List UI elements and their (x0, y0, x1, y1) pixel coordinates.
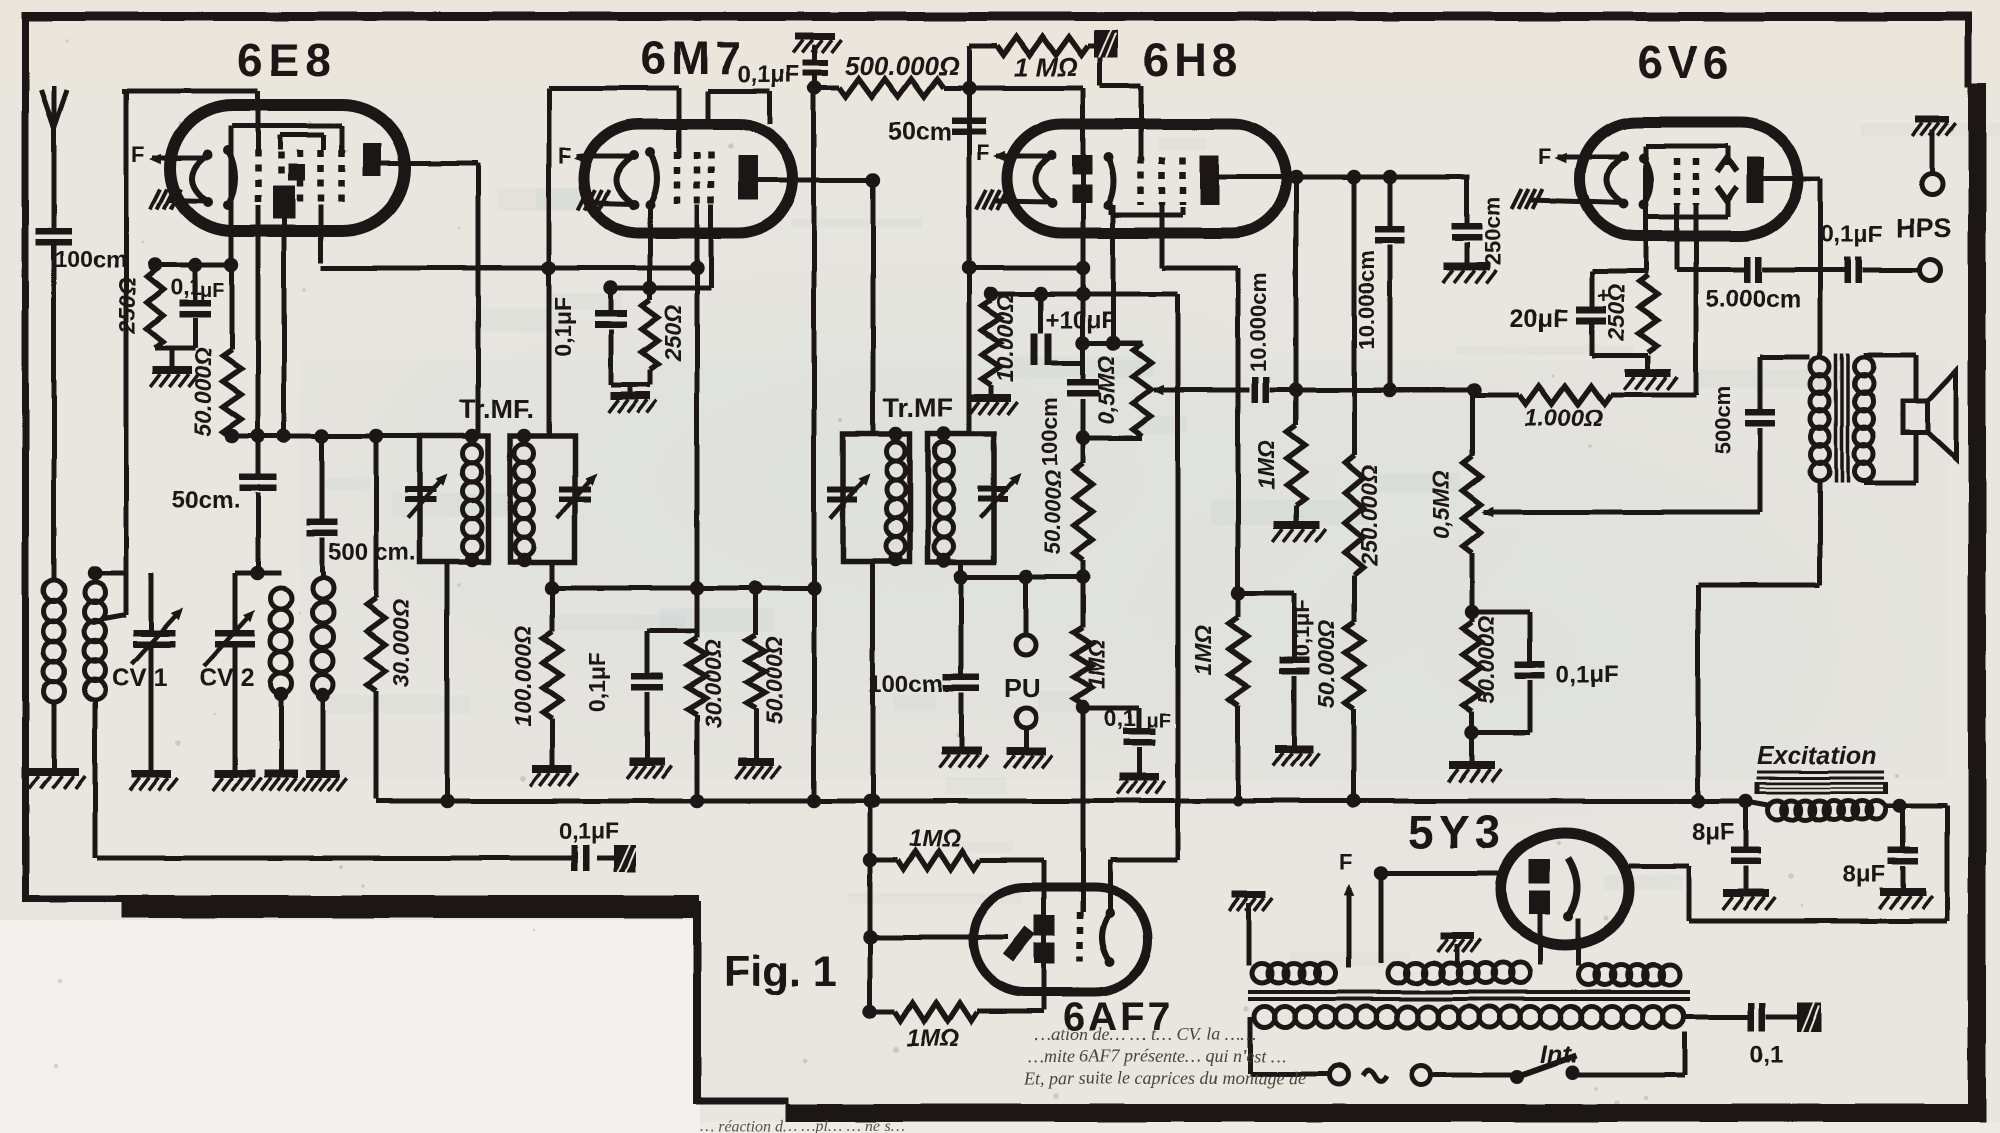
wire 6H8 cathode column (1111, 205, 1116, 343)
tube 6H8 envelope (1007, 124, 1286, 233)
svg-text:Et, par suite le caprices du m: Et, par suite le caprices du montage de (1023, 1068, 1306, 1088)
terminal mains 2 (1412, 1066, 1431, 1085)
chassis ground 6M7 heater (578, 190, 588, 210)
wire PU row (961, 575, 1083, 580)
wire 6V6 grid down (1694, 205, 1699, 395)
svg-text:Int.: Int. (1540, 1041, 1578, 1069)
svg-text:10.000Ω: 10.000Ω (992, 294, 1018, 382)
tube 6E8 internal top wire (232, 124, 342, 129)
svg-text:50.000Ω: 50.000Ω (1473, 616, 1499, 704)
resistor 50.000ohm detector (1074, 463, 1092, 560)
wire coil2 tap jog (124, 575, 129, 615)
svg-text:5.000cm: 5.000cm (1706, 286, 1801, 313)
wire 6M7 plate out (758, 178, 873, 183)
wire B+ bus y801 (376, 799, 1746, 804)
tube 6M7 grids (674, 152, 681, 205)
svg-text:30.000Ω: 30.000Ω (388, 599, 414, 687)
capacitor 100cm antenna (36, 228, 72, 235)
ground 0,1uF top (795, 33, 835, 40)
tube 6E8 plate (363, 143, 381, 176)
wire 6M7 anode down (871, 180, 876, 434)
svg-text:10.000cm: 10.000cm (1354, 250, 1379, 349)
capacitor 8uF first (1744, 801, 1749, 847)
transformer HT winding middle (1388, 963, 1408, 983)
ground antenna coil (29, 768, 79, 776)
potentiometer 0,5Mohm tone (1470, 390, 1475, 456)
svg-text:1.000Ω: 1.000Ω (1524, 405, 1603, 432)
mains squiggle (1363, 1071, 1387, 1082)
wire 6M7 screen row (552, 586, 814, 591)
output transformer primary (1811, 357, 1830, 376)
svg-text:0,5MΩ: 0,5MΩ (1428, 470, 1454, 539)
field coil laminations (1755, 782, 1888, 794)
IF transformer 1 left coil (463, 444, 482, 463)
ground HT center tap (1440, 932, 1474, 939)
tube 6M7 plate (738, 155, 758, 200)
svg-text:250cm: 250cm (1480, 197, 1505, 266)
arrow into tone pot (1484, 510, 1760, 515)
IF transformer 2 right trimmer (978, 486, 1008, 492)
terminal mains 1 (1330, 1066, 1349, 1085)
antenna (41, 90, 54, 128)
svg-text:6H8: 6H8 (1143, 34, 1242, 86)
tube 6H8 plate (1200, 155, 1219, 205)
resistor 50.000ohm tone (1463, 622, 1481, 712)
ground 8uF second (1880, 888, 1926, 896)
resistor 250ohm 6V6 cathode (1639, 275, 1657, 352)
svg-text:500.000Ω: 500.000Ω (845, 51, 959, 81)
wire 6V6 plate down (1818, 179, 1823, 357)
capacitor 20uF electrolytic (1590, 271, 1595, 306)
wire 6E8 grid col1 from box (256, 91, 261, 150)
wire (52, 700, 57, 768)
coil L3 oscillator (259, 571, 281, 576)
capacitor 0,1uF 6E8 cathode (193, 265, 198, 302)
IF transformer 2 left box (843, 434, 910, 562)
capacitor 0,1uF AF (1083, 706, 1139, 711)
capacitor 50cm top (952, 117, 986, 124)
border frame right thick (1968, 83, 1986, 1122)
ground PU (1006, 747, 1046, 755)
wire 6AF7 column (868, 801, 873, 1012)
svg-text:50cm.: 50cm. (172, 487, 240, 514)
svg-text:F: F (1538, 144, 1551, 169)
tube 6AF7 grid (1077, 912, 1084, 962)
field coil winding (1768, 801, 1787, 820)
svg-text:50.000Ω: 50.000Ω (761, 636, 787, 724)
wire 6H8 screen jog y268 (1162, 266, 1238, 271)
capacitor 8uF second (1901, 806, 1906, 847)
ground HPS (1915, 116, 1949, 123)
tube 6M7 heater (616, 155, 634, 205)
tube 6V6 grids (1674, 158, 1681, 205)
svg-text:0,1μF: 0,1μF (559, 818, 619, 844)
svg-text:20μF: 20μF (1510, 305, 1568, 333)
svg-text:1MΩ: 1MΩ (1190, 625, 1216, 675)
wire grid feed y88 (969, 86, 1083, 91)
capacitor 500cm (320, 436, 325, 519)
tube 6V6 plate (1747, 157, 1764, 203)
wire 6E8 col4 down (319, 205, 324, 263)
svg-text:μF: μF (1146, 710, 1170, 732)
resistor 1Mohm detector load (1074, 627, 1092, 704)
wire detector line x1083 (1081, 88, 1086, 381)
border frame left (22, 12, 29, 902)
svg-text:8μF: 8μF (1843, 861, 1886, 888)
svg-text:CV 1: CV 1 (112, 664, 168, 692)
ground capacitor screen (629, 758, 665, 766)
svg-text:F: F (1339, 850, 1352, 875)
wire 6AF7 target feed (1042, 860, 1047, 1010)
wire 6V6 plate out (1764, 177, 1820, 182)
border thick bar bottom (786, 1104, 1986, 1122)
svg-text:1MΩ: 1MΩ (907, 1025, 959, 1052)
ground 100.000ohm (532, 765, 572, 773)
pickup PU terminals (1024, 577, 1029, 635)
svg-text:0,1: 0,1 (1104, 705, 1136, 731)
wire 6M7 screen down (695, 205, 700, 588)
transformer HT winding left (1252, 963, 1272, 983)
wire coil2 bottom to AVC bus (93, 698, 98, 858)
border frame top (22, 12, 1972, 21)
terminal HPS upper (1922, 174, 1943, 195)
svg-text:HPS: HPS (1896, 213, 1952, 243)
resistor 500.000ohm (808, 81, 822, 95)
wire screen feed (1698, 583, 1820, 588)
svg-text:100cm.: 100cm. (869, 671, 950, 698)
svg-text:250Ω: 250Ω (660, 305, 686, 362)
wire 5Y3 anode feed (1381, 871, 1503, 876)
tube 6M7 cathode (650, 152, 657, 205)
capacitor 50cm (240, 474, 277, 481)
tube 6M7 envelope (584, 124, 793, 233)
potentiometer 0,5Mohm volume (1083, 341, 1142, 346)
ground 250cm (1444, 262, 1490, 270)
IF transformer 1 left trimmer (405, 486, 437, 492)
wire 6M7 screen bracket (708, 89, 770, 94)
wire cluster top (148, 263, 232, 268)
wire cathode cluster bottom (1592, 353, 1648, 358)
ground 10.000ohm (971, 394, 1011, 402)
transformer HT winding right (1578, 965, 1598, 985)
capacitor 5.000cm (1744, 257, 1751, 283)
resistor 250.000ohm (1352, 177, 1357, 455)
wire grid return y268 right (969, 266, 1083, 271)
tube 6E8 grids (255, 150, 262, 205)
capacitor 0,1uF output (1844, 257, 1851, 283)
wire cluster bottom (155, 346, 195, 351)
svg-text:6E8: 6E8 (237, 34, 337, 86)
svg-text:500 cm.: 500 cm. (328, 539, 416, 566)
wire AVC bus y858 (97, 856, 571, 861)
svg-text:30.000Ω: 30.000Ω (700, 640, 726, 728)
tube 5Y3 anodes (1529, 859, 1550, 883)
ground 100cm (941, 747, 981, 755)
chassis block AVC (614, 845, 636, 872)
svg-text:0,1μF: 0,1μF (1820, 221, 1883, 248)
capacitor 0,1uF 6M7 screen (645, 631, 650, 675)
IF transformer 1 right box (510, 436, 575, 562)
wire primary bottom down (1818, 481, 1823, 585)
transformer core (1248, 990, 1690, 994)
svg-text:Excitation: Excitation (1757, 742, 1876, 770)
resistor 250ohm 6M7 cathode (648, 288, 653, 300)
resistor 30.000ohm screen (695, 588, 700, 638)
svg-text:F: F (558, 143, 571, 168)
svg-text:0,1: 0,1 (170, 274, 202, 300)
resistor 1Mohm top (969, 44, 997, 49)
wire to switch (1431, 1073, 1513, 1078)
transformer primary winding (1254, 1007, 1275, 1028)
svg-text:CV 2: CV 2 (199, 664, 255, 692)
tube 5Y3 filament (1568, 858, 1577, 916)
capacitor 0,1uF top (813, 45, 818, 62)
svg-text:10.000cm: 10.000cm (1246, 272, 1271, 371)
wire 6H8 grid up to block (1139, 86, 1144, 157)
svg-text:…ation de… … t… CV. la ……: …ation de… … t… CV. la …… (1035, 1024, 1256, 1044)
IF transformer 2 right coil (935, 442, 954, 461)
svg-text:F: F (976, 140, 989, 165)
tube 6V6 internal box (1646, 144, 1728, 149)
wire 6H8 screen down (1160, 205, 1165, 268)
resistor 1Mohm 6AF7 top (870, 858, 898, 863)
wire box left vertical (124, 89, 129, 575)
variable capacitor CV2 (233, 573, 238, 632)
svg-text:0,1: 0,1 (1750, 1041, 1783, 1068)
tube 6H8 cathode (1108, 157, 1114, 205)
output transformer core (1834, 353, 1838, 483)
variable capacitor CV1 (149, 573, 154, 632)
border frame right thin (1965, 12, 1972, 87)
wire CV2 top (235, 571, 259, 576)
wire (95, 571, 126, 576)
resistor 30.000ohm (374, 436, 379, 598)
tube 6V6 beam plates (1717, 158, 1737, 172)
capacitor 0,1 mains (1748, 1003, 1755, 1031)
svg-text:50.000Ω: 50.000Ω (190, 348, 216, 436)
wire field coil right (1886, 804, 1947, 809)
ground coil L3 (264, 770, 298, 778)
ground tone (1449, 761, 1495, 769)
border thin bottom middle (697, 1097, 789, 1104)
tube 5Y3 envelope (1501, 833, 1629, 945)
svg-text:100cm: 100cm (1037, 398, 1062, 467)
resistor 1Mohm 6H8 grid2 (1294, 177, 1299, 425)
coil L4 oscillator (313, 578, 334, 599)
capacitor 0,1uF AF bypass (1292, 593, 1297, 659)
ground 6M7 cathode (628, 385, 633, 392)
tube 6AF7 envelope (973, 887, 1148, 992)
svg-text:+10μF: +10μF (1046, 307, 1116, 334)
wire detector to 6AF7 (1081, 704, 1086, 912)
wire 6M7 cathode cluster (610, 286, 711, 291)
tube 6AF7 cathode (1102, 913, 1110, 962)
wire 6H8 plate out y177 (1219, 175, 1470, 180)
tube 6H8 heater (1035, 155, 1052, 203)
switch Int. (1510, 1070, 1524, 1084)
svg-text:…mite 6AF7 présente… qui n'est: …mite 6AF7 présente… qui n'est … (1028, 1046, 1286, 1066)
resistor 50.000ohm (230, 265, 235, 350)
svg-text:… réaction d… …pl… … ne s: … réaction d… …pl… … ne s… (700, 1118, 904, 1133)
IF transformer 1 right trimmer (559, 486, 591, 492)
svg-text:6M7: 6M7 (641, 32, 745, 84)
svg-text:μF: μF (200, 280, 224, 302)
wire 6E8 plate out (381, 161, 478, 166)
wire 6AF7 cathode link (1110, 858, 1178, 863)
resistor 100.000ohm (550, 562, 555, 632)
speaker cone (1928, 371, 1956, 459)
tube 6E8 envelope (170, 105, 405, 231)
svg-text:50.000Ω: 50.000Ω (1040, 470, 1065, 554)
wire x969 vertical (967, 46, 972, 434)
wire screen sub-row (647, 629, 697, 634)
ground HT left (1232, 891, 1266, 898)
svg-text:500cm: 500cm (1710, 386, 1735, 455)
ground 8uF first (1723, 889, 1769, 897)
svg-text:8μF: 8μF (1692, 819, 1735, 846)
chassis ground 6H8 heater (976, 190, 986, 210)
resistor 1Mohm AF grid (1229, 617, 1247, 706)
tube 6V6 heater (1607, 156, 1624, 204)
wire 5Y3 filament down (1538, 914, 1543, 965)
chassis ground 6E8 heater (150, 189, 160, 209)
border thick bar lower-left (121, 901, 699, 918)
resistor 50.000ohm chain (1352, 575, 1357, 622)
capacitor 0,1uF 6M7 cathode (609, 288, 614, 310)
svg-text:0,1μF: 0,1μF (584, 652, 610, 712)
wire junction row (232, 434, 420, 439)
svg-text:5Y3: 5Y3 (1408, 806, 1505, 858)
ground CV1 (131, 770, 171, 778)
wire arrow line y390 (1154, 388, 1250, 393)
svg-text:6V6: 6V6 (1637, 36, 1734, 88)
tube 6E8 cathode (228, 150, 235, 205)
svg-text:100.000Ω: 100.000Ω (510, 625, 536, 726)
svg-text:250Ω: 250Ω (114, 277, 140, 334)
tube 6E8 anode lower (273, 186, 295, 219)
tube 6V6 cathode (1644, 158, 1651, 205)
wire 6V6 cathode down (1675, 205, 1680, 270)
coil L2 secondary (85, 582, 106, 603)
tube 6H8 grids (1138, 157, 1145, 205)
capacitor 0,1uF AVC (571, 845, 578, 871)
wire 6M7 cathode down (648, 205, 653, 288)
tube 6E8 internal bracket (280, 133, 324, 138)
wire output y270 (1677, 268, 1745, 273)
wire 6M7 grid box (549, 86, 679, 91)
svg-text:1MΩ: 1MΩ (1253, 440, 1279, 490)
faint print bleed-through (791, 219, 922, 228)
tube 6H8 cathode link (1109, 205, 1114, 215)
svg-text:1MΩ: 1MΩ (909, 825, 961, 852)
resistor 50.000ohm screen (754, 588, 759, 635)
chassis block mains (1797, 1003, 1821, 1032)
ground 0,1uF AF bypass (1275, 745, 1313, 753)
wire top horizontal y91 (122, 89, 258, 94)
svg-text:50.000Ω: 50.000Ω (1313, 620, 1339, 708)
wire (611, 383, 650, 388)
IF transformer 1 left box (420, 436, 488, 562)
chassis ground 6V6 heater (1512, 189, 1522, 209)
tube 6AF7 targets (1034, 915, 1055, 936)
svg-text:0,1μF: 0,1μF (550, 297, 576, 357)
ground 6V6 cathode (1646, 355, 1651, 369)
wire screen row y294 (991, 292, 1178, 297)
wire cathode cluster top (1592, 269, 1648, 274)
wire secondary to speaker (1864, 353, 1916, 358)
svg-text:250.000Ω: 250.000Ω (1356, 464, 1382, 566)
wire y273 corner to AF grid (1236, 268, 1241, 617)
ground 1Mohm (1273, 521, 1319, 529)
capacitor 10uF electrolytic (1039, 294, 1044, 333)
wire cathode return x1178 (1176, 294, 1181, 860)
resistor 10.000ohm screen (989, 294, 994, 300)
resistor 1Mohm 6AF7 bottom (870, 1010, 895, 1015)
tube 6H8 diode plates (1072, 155, 1092, 174)
IF transformer 2 left coil (887, 442, 906, 461)
svg-text:Fig. 1: Fig. 1 (724, 948, 836, 996)
capacitor 10.000cm plate (1388, 177, 1393, 226)
ground coil L4 (306, 770, 340, 778)
capacitor 0,1uF tone (1472, 610, 1530, 615)
tube 6AF7 deflector (1008, 930, 1030, 958)
wire 6AF7 grid (870, 935, 1008, 940)
wire 6E8 grid column down (256, 205, 261, 476)
svg-text:1 MΩ: 1 MΩ (1014, 52, 1078, 82)
ground 6E8 cathode (170, 348, 175, 366)
tube 6V6 envelope (1580, 122, 1798, 236)
wire TrMF1 left bottom to bus (445, 562, 450, 801)
chassis block 1M top (1094, 30, 1118, 58)
capacitor 100cm PU (943, 674, 979, 681)
wire TrMF2 left bottom to bus (871, 562, 876, 801)
wire primary top to 500cm (1760, 355, 1810, 360)
svg-text:250Ω: 250Ω (1603, 284, 1629, 341)
wire 5Y3 output (1629, 864, 1689, 869)
wire primary left (1248, 1017, 1253, 1074)
wire 0,1uF down to bus (812, 88, 817, 801)
border step vertical (693, 901, 701, 1104)
capacitor 500cm (1758, 357, 1763, 409)
border frame bottom-left thin (22, 895, 699, 902)
tube 6E8 anode small (288, 164, 305, 181)
svg-text:1MΩ: 1MΩ (1084, 639, 1110, 689)
svg-text:50cm: 50cm (888, 118, 952, 146)
svg-text:Tr.MF.: Tr.MF. (459, 394, 534, 424)
terminal HPS lower (1920, 260, 1941, 281)
wire secondary tap to 0,1 (1684, 1015, 1748, 1020)
output transformer secondary (1855, 357, 1874, 376)
wire cathode 6E8 down (229, 126, 234, 265)
svg-text:F: F (131, 142, 144, 167)
svg-text:0,1μF: 0,1μF (737, 61, 800, 88)
wire 6E8 anode lower down (282, 219, 287, 436)
speaker voice coil (1903, 401, 1928, 433)
capacitor 250cm (1465, 177, 1470, 223)
wire branch to 0,1uF bypass (1238, 591, 1294, 596)
IF transformer 2 left trimmer (827, 486, 857, 492)
coil L1 antenna (44, 580, 65, 601)
IF transformer 2 right box (928, 434, 994, 562)
wire 6M7 g3 down to AVC (709, 205, 714, 288)
resistor 250ohm 6E8 cathode (153, 265, 158, 270)
svg-text:Tr.MF: Tr.MF (883, 393, 954, 423)
tube 6E8 heater (192, 155, 208, 202)
ground CV2 (215, 770, 255, 778)
ground screen resistor (738, 758, 774, 766)
wire TrMF2 right bottom down (959, 562, 964, 676)
wire AVC line y268 (321, 266, 697, 271)
